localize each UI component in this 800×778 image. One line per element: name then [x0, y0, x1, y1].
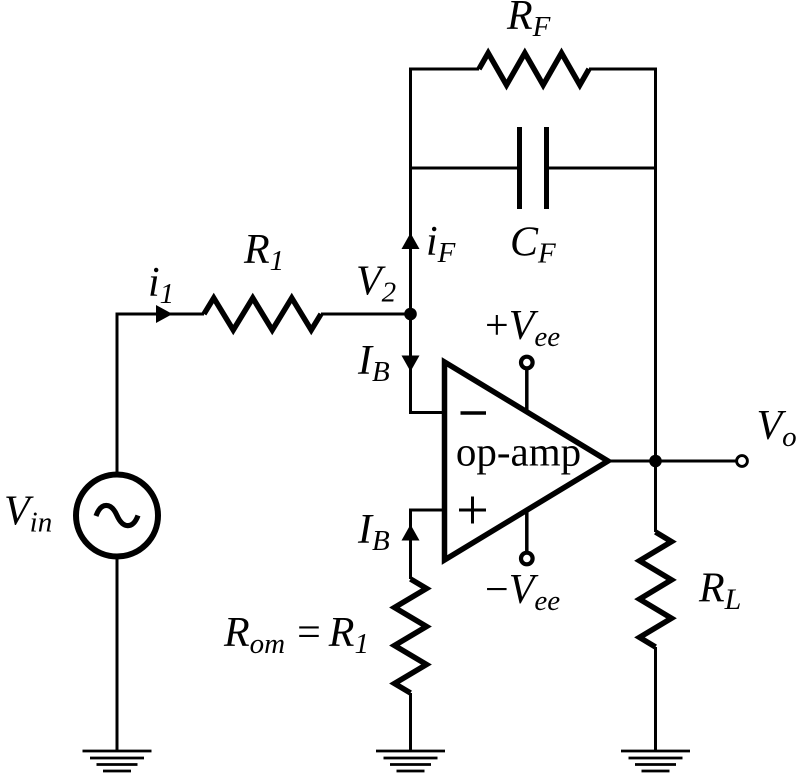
op-amp plus input mark: [459, 497, 486, 524]
wire right vertical (top corner down to output node): [654, 68, 657, 462]
arrow current IB upper (down): [402, 356, 420, 372]
source Vin sine: [96, 505, 138, 525]
wire left feedback vertical (top corner to node V2): [409, 68, 412, 316]
wire top feedback right segment: [589, 68, 656, 71]
terminal +Vee circle: [521, 357, 533, 369]
svg-text:op-amp: op-amp: [456, 429, 581, 475]
wire Vin bottom lead to ground: [116, 559, 119, 751]
arrow current iF: [402, 233, 420, 249]
resistor Rom: [395, 579, 427, 693]
resistor R1: [204, 298, 321, 330]
wire capacitor left lead: [411, 167, 518, 170]
arrow current IB lower (up): [402, 525, 420, 541]
arrow current i1: [156, 305, 173, 323]
wire node V2 down and into inverting input: [411, 314, 445, 413]
wire top feedback left segment: [411, 68, 480, 71]
wire RL bottom to ground: [654, 647, 657, 751]
ground at Vin: [83, 751, 152, 771]
source Vin: [76, 475, 158, 557]
wire op-amp output to terminal Vo: [608, 460, 737, 463]
resistor RF: [479, 53, 589, 85]
wire Rom bottom to ground: [409, 693, 412, 751]
terminal -Vee circle: [521, 553, 533, 565]
wire R1 to node V2: [321, 313, 411, 316]
ground at Rom: [376, 751, 445, 771]
op-amp U1: [445, 362, 609, 560]
ground at RL: [621, 751, 690, 771]
wire -Vee supply lead: [525, 511, 529, 553]
wire noninverting input left and down to Rom: [411, 510, 445, 579]
capacitor CF: [520, 127, 547, 209]
wire capacitor right lead: [549, 167, 656, 170]
wire +Vee supply lead: [525, 369, 529, 413]
node output junction dot: [649, 455, 662, 468]
op-amp minus input mark: [461, 411, 487, 414]
resistor RL: [640, 532, 672, 647]
node V2 junction dot: [404, 308, 417, 321]
wire output node to RL top: [654, 461, 657, 532]
wire Vin top lead to R1: [117, 314, 204, 472]
terminal Vo open circle: [737, 456, 748, 467]
